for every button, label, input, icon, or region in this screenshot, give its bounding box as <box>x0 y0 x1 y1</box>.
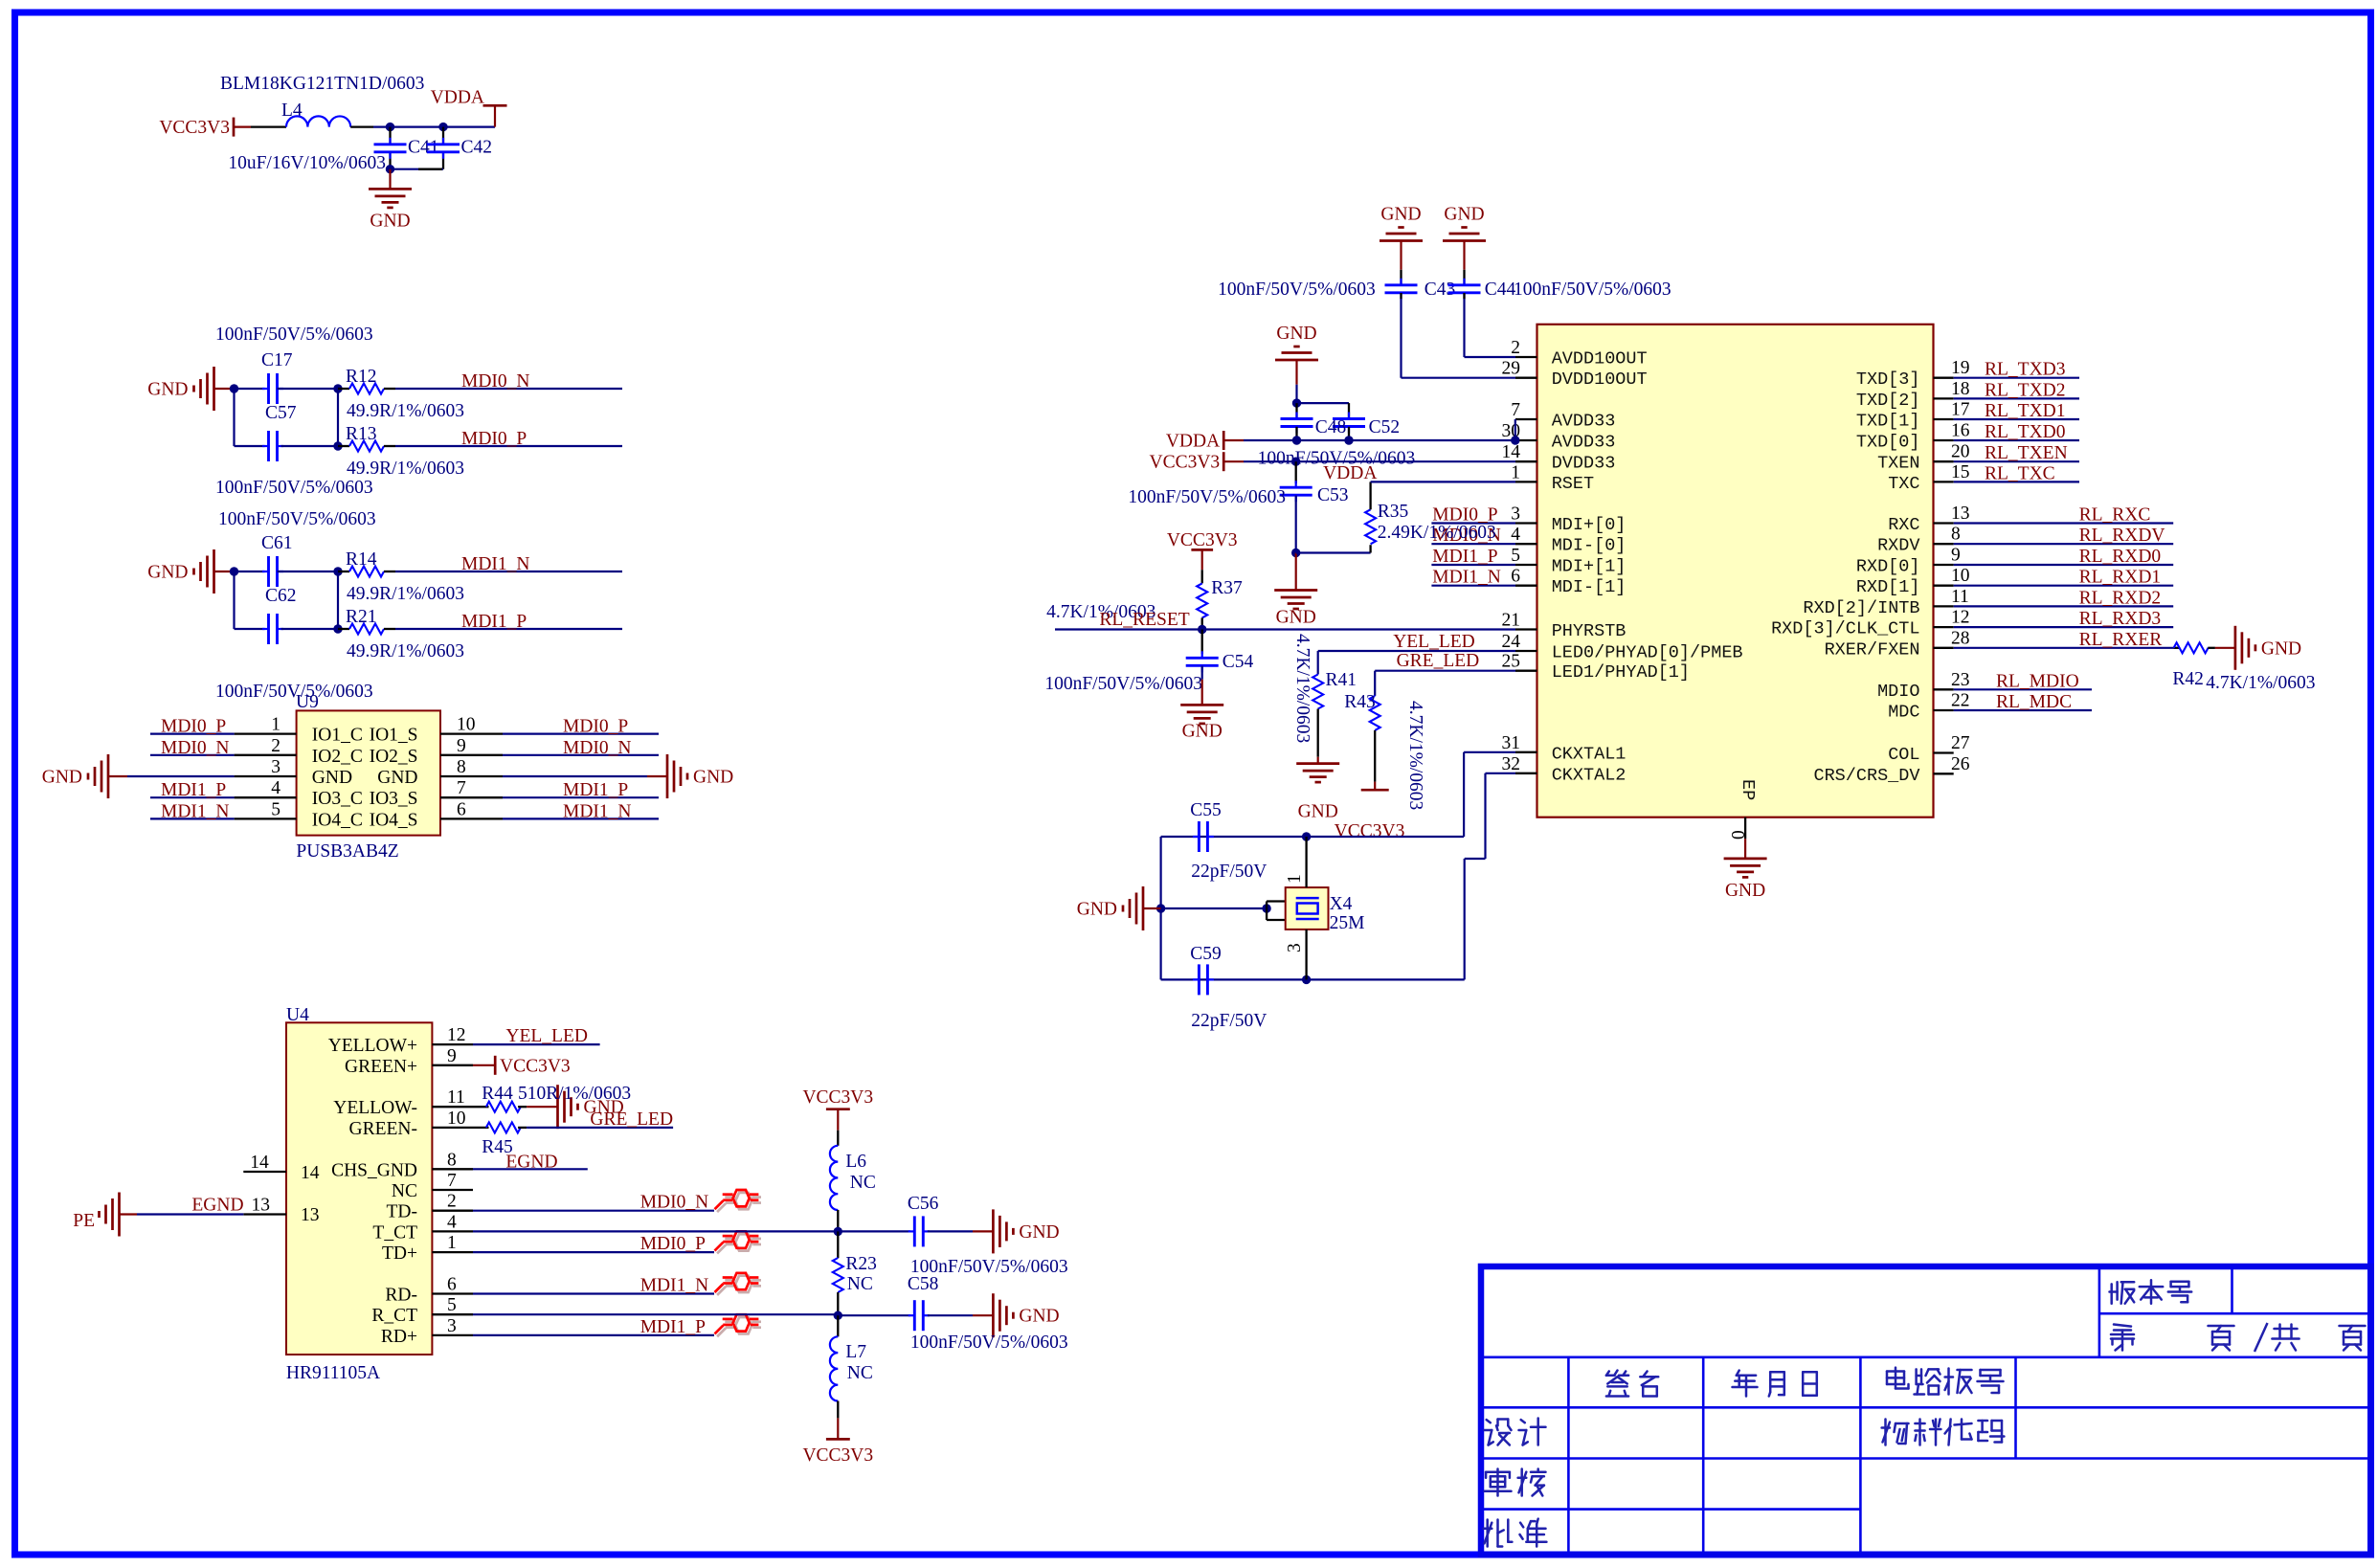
pin 7 PHY (left) <box>1515 418 1537 420</box>
svg-text:DVDD10OUT: DVDD10OUT <box>1552 370 1648 390</box>
svg-text:RL_MDC: RL_MDC <box>1996 692 2072 712</box>
pin 9 PHY (right) <box>1934 564 1954 566</box>
pin 28 PHY (right) <box>1934 647 1954 649</box>
wire net MDI1_N (U9 right) <box>503 818 659 819</box>
pin 15 PHY (right) <box>1934 481 1954 482</box>
svg-text:NC: NC <box>850 1173 876 1193</box>
svg-text:100nF/50V/5%/0603: 100nF/50V/5%/0603 <box>215 325 373 345</box>
svg-text:IO2_S: IO2_S <box>370 747 418 767</box>
title text 批准 <box>1484 1520 1513 1547</box>
svg-text:GRE_LED: GRE_LED <box>590 1109 673 1130</box>
svg-text:C59: C59 <box>1190 944 1222 964</box>
svg-text:RL_RXDV: RL_RXDV <box>2079 526 2165 546</box>
pin 3 X4 <box>1305 930 1307 980</box>
svg-text:RL_TXD3: RL_TXD3 <box>1985 360 2066 380</box>
pin 10 U4 (right) <box>432 1127 473 1129</box>
svg-text:AVDD10OUT: AVDD10OUT <box>1552 349 1648 370</box>
svg-text:TXC: TXC <box>1888 474 1919 494</box>
svg-text:C53: C53 <box>1317 485 1349 505</box>
svg-text:AVDD33: AVDD33 <box>1552 412 1616 432</box>
svg-text:X4: X4 <box>1330 894 1353 914</box>
pin 29 PHY (left) <box>1515 377 1537 379</box>
svg-text:YEL_LED: YEL_LED <box>1393 632 1475 652</box>
svg-text:9: 9 <box>457 736 466 756</box>
title text 电路板号 <box>1887 1368 1909 1389</box>
ESD array U9 body <box>297 710 440 835</box>
svg-text:RL_TXD0: RL_TXD0 <box>1985 422 2066 442</box>
wire net MDI0_P (U9 left) <box>150 732 235 734</box>
svg-text:MDIO: MDIO <box>1877 682 1919 702</box>
svg-text:RL_RXD0: RL_RXD0 <box>2079 547 2162 567</box>
wire net RL_RXD2 <box>1954 605 2174 607</box>
svg-text:VCC3V3: VCC3V3 <box>500 1056 571 1076</box>
wire net RL_RXD0 <box>1954 564 2174 566</box>
wire net MDI1_N <box>395 571 622 572</box>
svg-text:13: 13 <box>301 1205 320 1225</box>
svg-text:C55: C55 <box>1190 800 1222 820</box>
svg-text:R21: R21 <box>346 607 377 627</box>
svg-text:GREEN+: GREEN+ <box>345 1057 417 1077</box>
svg-text:COL: COL <box>1888 745 1919 765</box>
svg-text:14: 14 <box>250 1153 269 1173</box>
svg-text:EGND: EGND <box>505 1152 557 1172</box>
wire net RL_TXD0 <box>1954 439 2079 441</box>
svg-text:TXD[0]: TXD[0] <box>1856 433 1920 453</box>
ground GND (filter) <box>369 189 412 208</box>
svg-text:11: 11 <box>1951 587 1969 607</box>
svg-text:TXD[3]: TXD[3] <box>1856 370 1920 390</box>
power port VCC3V3 (R43) <box>1374 782 1376 791</box>
svg-text:HR911105A: HR911105A <box>286 1363 380 1383</box>
wire down2 <box>1464 859 1466 979</box>
svg-text:13: 13 <box>1951 504 1970 524</box>
svg-text:VCC3V3: VCC3V3 <box>159 118 230 138</box>
svg-text:LED1/PHYAD[1]: LED1/PHYAD[1] <box>1552 662 1690 683</box>
C52 lead <box>1348 403 1350 418</box>
svg-text:22pF/50V: 22pF/50V <box>1191 862 1267 882</box>
inductor L4 <box>286 116 350 126</box>
svg-text:MDI-[1]: MDI-[1] <box>1552 577 1626 597</box>
svg-text:RXD[1]: RXD[1] <box>1856 577 1920 597</box>
capacitor C41 leads <box>389 127 391 145</box>
svg-text:GND: GND <box>1077 900 1117 920</box>
svg-text:5: 5 <box>1511 546 1520 566</box>
pin EP lead <box>1744 818 1746 839</box>
wire left rail <box>233 571 235 629</box>
pin 8 U4 (right) <box>432 1168 473 1170</box>
pin 3 U4 (right) <box>432 1334 473 1336</box>
svg-text:22: 22 <box>1951 691 1970 711</box>
junction T_CT/C56 <box>834 1227 842 1236</box>
svg-text:17: 17 <box>1951 400 1970 420</box>
resistor R13 <box>349 441 384 452</box>
wire net MDI0_P (U4 to PHY) <box>473 1251 714 1253</box>
svg-text:10: 10 <box>447 1109 466 1129</box>
pin 6 PHY (left) <box>1515 585 1537 587</box>
svg-text:49.9R/1%/0603: 49.9R/1%/0603 <box>347 401 464 421</box>
wire L4 to VDDA rail <box>373 126 495 128</box>
wire to pin2 <box>1465 356 1516 358</box>
wire net RL_TXD1 <box>1954 418 2079 420</box>
svg-text:TXD[2]: TXD[2] <box>1856 391 1920 411</box>
resistor R21 <box>349 624 384 635</box>
power port VDDA (rail) <box>1223 431 1225 450</box>
svg-text:VCC3V3: VCC3V3 <box>1167 530 1238 550</box>
svg-text:GND: GND <box>1276 608 1316 628</box>
power port VDDA <box>483 104 507 107</box>
crystal X4 body <box>1286 887 1329 930</box>
pin 11 U4 (right) <box>432 1106 473 1108</box>
svg-text:GND: GND <box>377 768 417 788</box>
resistor lead <box>384 628 395 630</box>
resistor R41 <box>1312 675 1323 709</box>
pin 19 PHY (right) <box>1934 377 1954 379</box>
svg-text:T_CT: T_CT <box>372 1222 417 1243</box>
svg-text:4.7K/1%/0603: 4.7K/1%/0603 <box>1405 701 1425 810</box>
svg-text:GND: GND <box>1298 802 1338 822</box>
pin 27 PHY (right) <box>1934 751 1954 753</box>
svg-text:MDI1_N: MDI1_N <box>461 554 530 574</box>
ground bars PE <box>100 1193 120 1237</box>
junction at C42 <box>438 123 447 131</box>
svg-text:RXD[3]/CLK_CTL: RXD[3]/CLK_CTL <box>1771 619 1919 639</box>
svg-text:RL_RXC: RL_RXC <box>2079 505 2151 526</box>
junction C53 <box>1291 458 1300 466</box>
resistor R43 <box>1370 696 1380 730</box>
svg-text:U9: U9 <box>296 692 319 712</box>
pin 2 U4 (right) <box>432 1210 473 1212</box>
wire cap to junction <box>281 445 339 447</box>
wire R_CT to C58 node <box>473 1313 839 1315</box>
resistor R37 <box>1197 583 1207 617</box>
wire net GRE_LED (U4) <box>527 1127 673 1129</box>
ground GND (C54) <box>1180 705 1223 724</box>
resistor lead <box>338 628 349 630</box>
svg-text:MDI1_N: MDI1_N <box>640 1276 709 1296</box>
wire net MDI1_N (U9 left) <box>150 818 235 819</box>
pin 3 PHY (left) <box>1515 522 1537 524</box>
capacitor C61 <box>262 571 269 572</box>
title text 设计 <box>1485 1420 1512 1445</box>
resistor lead <box>384 445 395 447</box>
wire net RL_RXDV <box>1954 543 2174 545</box>
svg-text:RXD[2]/INTB: RXD[2]/INTB <box>1803 598 1919 618</box>
wire net MDI1_N (PHY side) <box>1431 585 1515 587</box>
wire net EGND (U4) <box>473 1168 588 1170</box>
C54 lead <box>1201 630 1203 655</box>
svg-text:RL_MDIO: RL_MDIO <box>1996 671 2079 691</box>
junction R37/C54 <box>1198 625 1206 634</box>
svg-text:21: 21 <box>1502 611 1521 631</box>
svg-text:IO1_C: IO1_C <box>312 726 363 746</box>
wire C58 to GND <box>928 1314 973 1316</box>
svg-text:GND: GND <box>147 563 188 583</box>
pin 6 U4 (right) <box>432 1292 473 1294</box>
wire net MDI0_P <box>395 445 622 447</box>
svg-text:VCC3V3: VCC3V3 <box>802 1087 873 1108</box>
wire gnd node to R35 <box>1296 551 1371 553</box>
ground GND (R41) <box>1296 764 1339 783</box>
svg-text:23: 23 <box>1951 670 1970 690</box>
junction at C41 <box>386 123 394 131</box>
pin 14 U4 (left) <box>243 1171 286 1173</box>
svg-text:19: 19 <box>1951 358 1970 378</box>
differential pair directive (MDI0_P) <box>717 1234 761 1253</box>
wire down to R43 <box>1374 671 1376 696</box>
svg-text:MDI0_N: MDI0_N <box>563 738 632 758</box>
power port VCC3V3 (U4 pin9) <box>494 1056 497 1075</box>
wire to VCC3V3 port <box>473 1064 495 1066</box>
capacitor C59 <box>1193 978 1200 980</box>
svg-text:5: 5 <box>447 1295 457 1315</box>
svg-text:26: 26 <box>1951 754 1970 774</box>
svg-text:510R/1%/0603: 510R/1%/0603 <box>518 1084 631 1104</box>
wire net RL_RXER <box>1954 647 2174 649</box>
resistor R35 <box>1365 509 1376 544</box>
svg-text:R23: R23 <box>845 1254 877 1274</box>
title text 年月日 <box>1733 1371 1758 1397</box>
L7 lead <box>837 1315 839 1336</box>
svg-text:RL_RESET: RL_RESET <box>1099 610 1189 630</box>
ground GND (C43) <box>1380 228 1423 241</box>
wire xtal top <box>1161 836 1465 838</box>
ground GND (EP) <box>1724 859 1767 878</box>
svg-text:YELLOW-: YELLOW- <box>333 1098 417 1118</box>
ground GND (C56) <box>993 1209 1013 1253</box>
svg-text:2: 2 <box>271 736 280 756</box>
wire to C56 <box>839 1230 910 1232</box>
svg-text:14: 14 <box>1502 442 1521 462</box>
svg-text:8: 8 <box>457 757 466 777</box>
svg-text:TD+: TD+ <box>382 1243 417 1264</box>
capacitor C58 <box>909 1314 915 1316</box>
svg-text:27: 27 <box>1951 733 1970 753</box>
ground GND (C44) <box>1443 228 1486 241</box>
resistor lead <box>384 571 395 572</box>
svg-text:2.49K/1%/0603: 2.49K/1%/0603 <box>1378 523 1496 543</box>
svg-text:9: 9 <box>447 1046 457 1066</box>
wire right rail <box>337 571 339 629</box>
svg-text:3: 3 <box>271 757 280 777</box>
pin 4 X4 (case) <box>1267 919 1286 921</box>
svg-text:100nF/50V/5%/0603: 100nF/50V/5%/0603 <box>910 1333 1068 1353</box>
wire net MDI0_N (U9 left) <box>150 754 235 756</box>
ground GND (C48/C52) <box>1275 347 1318 360</box>
svg-text:R35: R35 <box>1378 502 1409 522</box>
differential pair directive (MDI0_N) <box>717 1193 761 1212</box>
svg-text:PUSB3AB4Z: PUSB3AB4Z <box>296 841 398 862</box>
R37 lead <box>1201 570 1203 583</box>
svg-text:MDI0_N: MDI0_N <box>640 1193 709 1213</box>
wire net MDI0_N (U9 right) <box>503 754 659 756</box>
wire net GRE_LED (PHY) <box>1375 670 1515 672</box>
svg-text:R_CT: R_CT <box>371 1306 417 1326</box>
wire to junction <box>1295 385 1297 403</box>
svg-text:2: 2 <box>447 1192 457 1212</box>
R23 lead <box>837 1231 839 1258</box>
wire R35 to RSET pin1 <box>1371 481 1515 482</box>
svg-text:MDI+[0]: MDI+[0] <box>1552 515 1626 535</box>
svg-text:100nF/50V/5%/0603: 100nF/50V/5%/0603 <box>1218 280 1376 300</box>
svg-text:MDI1_P: MDI1_P <box>640 1317 706 1337</box>
svg-text:MDI1_P: MDI1_P <box>1432 547 1497 567</box>
svg-text:MDI1_P: MDI1_P <box>461 612 527 632</box>
svg-text:MDI0_P: MDI0_P <box>461 429 527 449</box>
wire cap to junction <box>278 571 339 572</box>
junction xtal pin3 <box>1302 975 1311 984</box>
capacitor C56 <box>909 1230 915 1232</box>
wire gnd to xtal case <box>1161 907 1268 909</box>
svg-text:NC: NC <box>847 1363 873 1383</box>
svg-text:MDI+[1]: MDI+[1] <box>1552 557 1626 577</box>
pin 16 PHY (right) <box>1934 439 1954 441</box>
wire C43 down <box>1400 299 1402 378</box>
svg-text:7: 7 <box>1511 400 1520 420</box>
R41 lead <box>1317 709 1319 757</box>
pin 31 PHY (left) <box>1515 751 1537 753</box>
svg-text:NC: NC <box>847 1274 873 1294</box>
pin 13 U4 (left) <box>243 1213 286 1215</box>
pin 30 PHY (left) <box>1515 439 1537 441</box>
svg-text:GND: GND <box>312 768 352 788</box>
pin 13 PHY (right) <box>1934 522 1954 524</box>
svg-text:4: 4 <box>1511 525 1520 545</box>
svg-text:0: 0 <box>1729 830 1749 840</box>
svg-text:BLM18KG121TN1D/0603: BLM18KG121TN1D/0603 <box>220 74 424 94</box>
svg-text:C54: C54 <box>1223 652 1254 672</box>
svg-text:1: 1 <box>271 715 280 735</box>
R23 lead <box>837 1292 839 1315</box>
resistor R45 <box>486 1122 521 1132</box>
wire net RL_RXD3 <box>1954 626 2174 628</box>
wire C44 down <box>1463 299 1465 357</box>
pin 10 U9 (right) <box>440 732 503 734</box>
capacitor C52 <box>1348 413 1350 419</box>
title text 物料代码 <box>1882 1420 1909 1445</box>
svg-text:4: 4 <box>271 778 280 798</box>
pin 18 PHY (right) <box>1934 397 1954 399</box>
svg-text:MDI0_P: MDI0_P <box>563 717 628 737</box>
resistor R23 <box>833 1258 843 1292</box>
wire RL_RESET to PHYRSTB <box>1055 628 1515 630</box>
wire EGND to U4 pin13 <box>137 1213 243 1215</box>
svg-text:VDDA: VDDA <box>1323 463 1377 483</box>
pin 8 PHY (right) <box>1934 543 1954 545</box>
pin 1 PHY (left) <box>1515 481 1537 482</box>
wire net MDI1_N (U4 to PHY) <box>473 1292 714 1294</box>
svg-text:GND: GND <box>42 768 82 788</box>
svg-text:31: 31 <box>1502 733 1521 753</box>
svg-text:IO4_S: IO4_S <box>370 810 418 830</box>
resistor R42 <box>2174 642 2209 653</box>
svg-text:PHYRSTB: PHYRSTB <box>1552 621 1626 641</box>
resistor R14 <box>349 567 384 577</box>
wire net MDI1_P (U9 right) <box>503 796 659 798</box>
ground GND (R44) <box>558 1085 578 1129</box>
svg-text:MDI0_P: MDI0_P <box>640 1234 706 1254</box>
svg-text:RL_TXC: RL_TXC <box>1985 463 2055 483</box>
ground GND (MDI0_N group) <box>194 367 214 411</box>
wire GND to C43 <box>1400 241 1402 270</box>
wire to C58 <box>839 1314 910 1316</box>
svg-text:1: 1 <box>1511 462 1520 482</box>
svg-text:C57: C57 <box>265 403 297 423</box>
wire GND to C44 <box>1463 241 1465 270</box>
pin 1 X4 <box>1305 837 1307 887</box>
wire C56 to GND <box>928 1230 973 1232</box>
svg-text:GND: GND <box>147 380 188 400</box>
svg-text:C56: C56 <box>908 1194 939 1214</box>
svg-text:10uF/16V/10%/0603: 10uF/16V/10%/0603 <box>228 153 386 173</box>
pin 14 PHY (left) <box>1515 460 1537 462</box>
power port VCC3V3 (filter input) <box>233 118 236 137</box>
svg-text:GND: GND <box>1019 1307 1059 1327</box>
svg-text:MDI1_N: MDI1_N <box>563 801 632 821</box>
svg-text:2: 2 <box>1511 338 1520 358</box>
svg-text:12: 12 <box>1951 608 1970 628</box>
R43 lead <box>1374 730 1376 782</box>
wire down <box>1463 752 1465 837</box>
wire CKXTAL1 <box>1464 751 1515 753</box>
wire net MDI1_P (PHY side) <box>1431 564 1515 566</box>
svg-text:MDC: MDC <box>1888 703 1919 723</box>
svg-text:7: 7 <box>447 1171 457 1191</box>
svg-text:RL_RXD3: RL_RXD3 <box>2079 609 2162 629</box>
pin 1 U9 (left) <box>235 732 297 734</box>
svg-text:18: 18 <box>1951 379 1970 399</box>
wire CKXTAL2 <box>1486 773 1516 774</box>
svg-text:8: 8 <box>447 1150 457 1170</box>
svg-text:RD+: RD+ <box>381 1327 417 1347</box>
wire VCC3V3 to L4 (lead) <box>251 125 286 127</box>
wire net MDI0_N (U4 to PHY) <box>473 1210 714 1212</box>
svg-text:R44: R44 <box>482 1084 513 1104</box>
wire to cap C61 <box>235 571 265 572</box>
pin 26 PHY (right) <box>1934 773 1954 774</box>
svg-text:10: 10 <box>1951 566 1970 586</box>
svg-text:16: 16 <box>1951 421 1970 441</box>
svg-text:IO1_S: IO1_S <box>370 726 418 746</box>
title text 签名 <box>1606 1371 1628 1397</box>
svg-text:GND: GND <box>693 768 733 788</box>
svg-text:CRS/CRS_DV: CRS/CRS_DV <box>1813 766 1919 786</box>
wire U9 pin8 to gnd <box>503 775 647 777</box>
svg-text:EGND: EGND <box>191 1196 243 1216</box>
svg-text:4.7K/1%/0603: 4.7K/1%/0603 <box>1292 634 1312 743</box>
pin 11 PHY (right) <box>1934 605 1954 607</box>
resistor R44 <box>486 1102 521 1112</box>
svg-text:GND: GND <box>1182 721 1223 741</box>
wire to pin29 <box>1402 377 1516 379</box>
wire net RL_RXD1 <box>1954 585 2174 587</box>
svg-text:IO4_C: IO4_C <box>312 810 363 830</box>
pin 20 PHY (right) <box>1934 460 1954 462</box>
pin 2 PHY (left) <box>1515 356 1537 358</box>
wire net RL_MDC <box>1954 709 2092 711</box>
pin 10 PHY (right) <box>1934 585 1954 587</box>
svg-text:AVDD33: AVDD33 <box>1552 433 1616 453</box>
ground GND (X4) <box>1123 886 1143 930</box>
pin 12 PHY (right) <box>1934 626 1954 628</box>
wire GND down <box>1295 360 1297 385</box>
svg-text:25M: 25M <box>1330 913 1365 933</box>
svg-text:C44: C44 <box>1485 280 1516 300</box>
svg-text:MDI0_P: MDI0_P <box>161 717 226 737</box>
svg-text:IO2_C: IO2_C <box>312 747 363 767</box>
L6 lead bottom <box>837 1210 839 1231</box>
svg-text:VCC3V3: VCC3V3 <box>1335 821 1405 841</box>
power port VCC3V3 (top of L6) <box>826 1108 850 1110</box>
